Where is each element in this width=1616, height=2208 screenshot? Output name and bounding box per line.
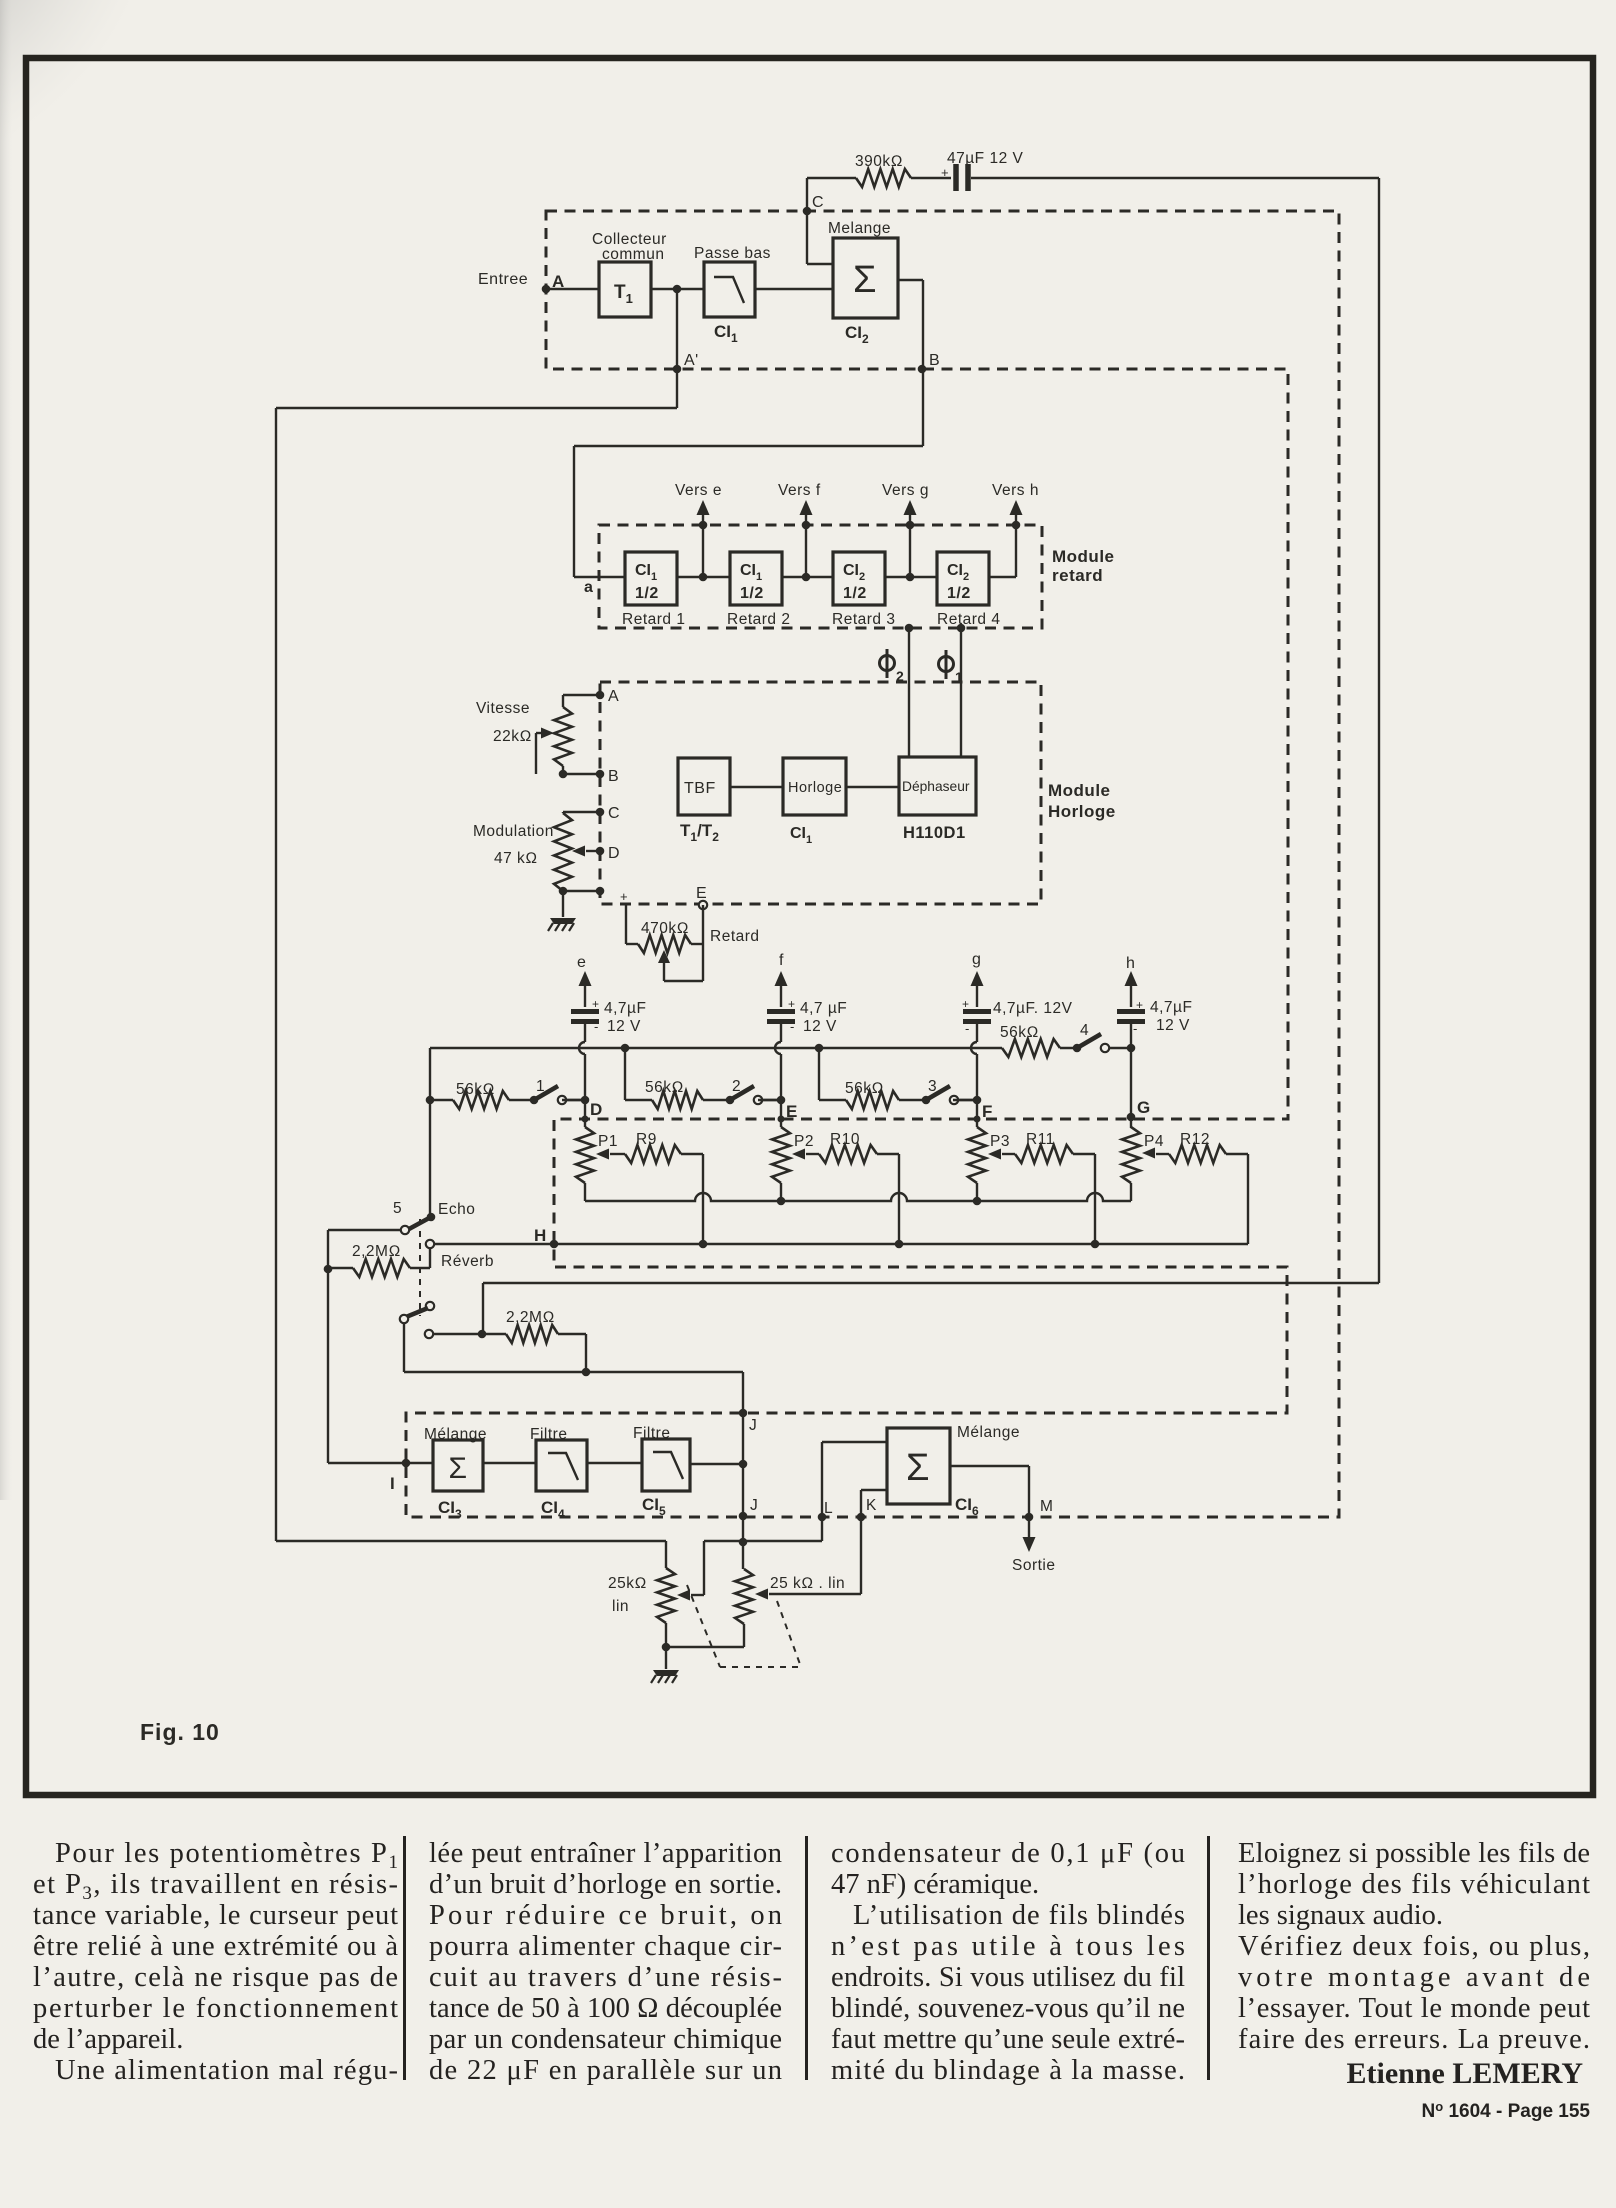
svg-text:390kΩ: 390kΩ: [855, 153, 903, 170]
svg-text:être relié à une extrémité ou: être relié à une extrémité ou à: [33, 1931, 398, 1962]
svg-text:4,7µF. 12V: 4,7µF. 12V: [993, 1000, 1073, 1017]
svg-text:h: h: [1126, 955, 1135, 972]
svg-text:1/2: 1/2: [635, 585, 659, 602]
svg-text:E: E: [786, 1102, 798, 1121]
svg-text:d’un bruit d’horloge en sortie: d’un bruit d’horloge en sortie.: [429, 1869, 782, 1900]
svg-text:-: -: [790, 1019, 795, 1034]
svg-text:tance de 50 à 100 Ω découplée: tance de 50 à 100 Ω découplée: [429, 1993, 782, 2024]
svg-text:condensateur de 0,1 μF (ou: condensateur de 0,1 μF (ou: [831, 1838, 1185, 1869]
svg-text:4: 4: [1080, 1022, 1089, 1039]
svg-text:2,2MΩ: 2,2MΩ: [352, 1243, 401, 1260]
svg-text:Filtre: Filtre: [530, 1426, 567, 1443]
svg-text:56kΩ: 56kΩ: [456, 1081, 495, 1098]
svg-text:Retard 1: Retard 1: [622, 611, 685, 628]
svg-text:E: E: [696, 885, 707, 902]
svg-text:L’utilisation de fils blindés: L’utilisation de fils blindés: [853, 1900, 1185, 1931]
svg-text:Sortie: Sortie: [1012, 1557, 1056, 1574]
svg-text:faut mettre qu’une seule extré: faut mettre qu’une seule extré-: [831, 2024, 1185, 2055]
svg-text:Horloge: Horloge: [1048, 802, 1116, 821]
svg-text:Vitesse: Vitesse: [476, 700, 530, 717]
svg-text:1: 1: [955, 669, 963, 685]
svg-text:Melange: Melange: [828, 220, 891, 237]
svg-text:1/2: 1/2: [740, 585, 764, 602]
svg-text:H110D1: H110D1: [903, 824, 966, 842]
svg-text:lin: lin: [612, 1598, 629, 1615]
svg-text:5: 5: [393, 1200, 402, 1217]
svg-text:n’est pas utile à tous les: n’est pas utile à tous les: [831, 1931, 1185, 1962]
svg-text:blindé, souvenez-vous qu’il ne: blindé, souvenez-vous qu’il ne: [831, 1993, 1185, 2024]
svg-text:tance variable, le curseur peu: tance variable, le curseur peut: [33, 1900, 398, 1931]
svg-text:A: A: [608, 688, 619, 705]
svg-text:A': A': [684, 352, 699, 369]
svg-text:-: -: [965, 1021, 970, 1036]
svg-text:25 kΩ . lin: 25 kΩ . lin: [770, 1575, 845, 1592]
svg-text:+: +: [592, 997, 600, 1011]
svg-text:cuit au travers d’une résis-: cuit au travers d’une résis-: [429, 1962, 782, 1993]
svg-text:I: I: [390, 1474, 395, 1493]
svg-text:commun: commun: [602, 246, 664, 263]
svg-text:Une alimentation mal régu-: Une alimentation mal régu-: [55, 2055, 398, 2086]
svg-text:de l’appareil.: de l’appareil.: [33, 2024, 183, 2055]
svg-text:Echo: Echo: [438, 1201, 475, 1218]
svg-text:Mélange: Mélange: [957, 1424, 1020, 1441]
svg-text:D: D: [590, 1100, 603, 1119]
svg-text:a: a: [584, 579, 593, 596]
svg-text:2: 2: [896, 668, 904, 684]
svg-text:C: C: [812, 194, 824, 211]
svg-text:+: +: [962, 997, 970, 1011]
svg-text:lée peut entraîner l’apparitio: lée peut entraîner l’apparition: [429, 1838, 782, 1869]
svg-text:2,2MΩ: 2,2MΩ: [506, 1309, 555, 1326]
svg-text:R10: R10: [830, 1131, 860, 1148]
svg-text:les signaux audio.: les signaux audio.: [1238, 1900, 1443, 1931]
svg-text:56kΩ: 56kΩ: [1000, 1024, 1039, 1041]
svg-text:Filtre: Filtre: [633, 1425, 670, 1442]
svg-text:47 nF) céramique.: 47 nF) céramique.: [831, 1869, 1039, 1900]
svg-text:G: G: [1137, 1098, 1151, 1117]
svg-text:1/2: 1/2: [843, 585, 867, 602]
svg-text:47µF 12 V: 47µF 12 V: [947, 150, 1023, 167]
svg-text:Entree: Entree: [478, 271, 528, 288]
svg-text:12 V: 12 V: [803, 1018, 837, 1035]
svg-text:Σ: Σ: [448, 1452, 467, 1485]
svg-text:No 1604 - Page 155: No 1604 - Page 155: [1421, 2099, 1590, 2122]
svg-text:Horloge: Horloge: [788, 780, 842, 796]
svg-text:par un condensateur chimique: par un condensateur chimique: [429, 2024, 782, 2055]
svg-text:votre montage avant de: votre montage avant de: [1238, 1962, 1590, 1993]
svg-text:Passe bas: Passe bas: [694, 245, 771, 262]
svg-text:Déphaseur: Déphaseur: [902, 779, 970, 794]
svg-text:de 22 μF en parallèle sur un: de 22 μF en parallèle sur un: [429, 2055, 782, 2086]
svg-text:J: J: [749, 1417, 757, 1434]
svg-text:1: 1: [536, 1078, 545, 1095]
svg-text:Etienne LEMERY: Etienne LEMERY: [1347, 2057, 1584, 2090]
svg-text:l’autre, celà ne risque pas de: l’autre, celà ne risque pas de: [33, 1962, 398, 1993]
svg-text:l’essayer. Tout le monde peut: l’essayer. Tout le monde peut: [1238, 1993, 1590, 2024]
svg-text:Σ: Σ: [906, 1447, 930, 1489]
svg-text:H: H: [534, 1226, 547, 1245]
svg-text:Σ: Σ: [853, 259, 877, 301]
svg-text:Réverb: Réverb: [441, 1253, 494, 1270]
svg-text:+: +: [941, 165, 949, 180]
svg-text:56kΩ: 56kΩ: [845, 1080, 884, 1097]
svg-text:22kΩ: 22kΩ: [493, 728, 532, 745]
svg-text:+: +: [620, 889, 628, 904]
svg-text:mité du blindage à la masse.: mité du blindage à la masse.: [831, 2055, 1185, 2086]
svg-text:R9: R9: [636, 1131, 657, 1148]
svg-text:perturber le fonctionnement: perturber le fonctionnement: [33, 1993, 398, 2024]
svg-text:Vers e: Vers e: [675, 482, 722, 499]
svg-text:Retard: Retard: [710, 928, 760, 945]
svg-text:12 V: 12 V: [607, 1018, 641, 1035]
svg-text:Module: Module: [1048, 781, 1111, 800]
svg-text:M: M: [1040, 1498, 1053, 1515]
svg-text:Vers f: Vers f: [778, 482, 821, 499]
svg-text:F: F: [982, 1102, 993, 1121]
svg-text:2: 2: [732, 1078, 741, 1095]
svg-text:Vérifiez deux fois, ou plus,: Vérifiez deux fois, ou plus,: [1238, 1931, 1590, 1962]
svg-text:Retard 3: Retard 3: [832, 611, 895, 628]
svg-text:Mélange: Mélange: [424, 1426, 487, 1443]
svg-text:3: 3: [928, 1078, 937, 1095]
svg-text:Vers h: Vers h: [992, 482, 1039, 499]
svg-text:R11: R11: [1026, 1131, 1055, 1148]
svg-text:Module: Module: [1052, 547, 1115, 566]
svg-text:+: +: [788, 997, 796, 1011]
svg-text:K: K: [866, 1497, 877, 1514]
svg-text:25kΩ: 25kΩ: [608, 1575, 647, 1592]
svg-text:-: -: [1133, 1021, 1138, 1036]
svg-text:47 kΩ: 47 kΩ: [494, 850, 538, 867]
svg-text:retard: retard: [1052, 566, 1103, 585]
svg-text:pourra alimenter chaque cir-: pourra alimenter chaque cir-: [429, 1931, 782, 1962]
svg-text:12 V: 12 V: [1156, 1017, 1190, 1034]
svg-text:4,7 µF: 4,7 µF: [800, 1000, 847, 1017]
svg-text:D: D: [608, 845, 620, 862]
svg-text:56kΩ: 56kΩ: [645, 1079, 684, 1096]
svg-text:TBF: TBF: [684, 780, 716, 797]
svg-text:endroits. Si vous utilisez du: endroits. Si vous utilisez du fil: [831, 1962, 1185, 1993]
svg-text:Pour les potentiomètres P1: Pour les potentiomètres P1: [55, 1838, 398, 1873]
svg-text:f: f: [779, 952, 784, 969]
svg-text:g: g: [972, 951, 981, 968]
svg-text:e: e: [577, 954, 586, 971]
svg-text:R12: R12: [1180, 1131, 1210, 1148]
svg-text:Vers g: Vers g: [882, 482, 929, 499]
svg-text:P1: P1: [598, 1133, 618, 1150]
svg-text:B: B: [608, 768, 619, 785]
svg-text:+: +: [1136, 998, 1144, 1012]
svg-text:Eloignez si possible les fils: Eloignez si possible les fils de: [1238, 1838, 1590, 1869]
svg-text:4,7µF: 4,7µF: [604, 1000, 646, 1017]
svg-text:Fig. 10: Fig. 10: [140, 1719, 220, 1745]
svg-text:C: C: [608, 805, 620, 822]
svg-text:1/2: 1/2: [947, 585, 971, 602]
svg-text:P2: P2: [794, 1133, 814, 1150]
svg-text:P3: P3: [990, 1133, 1010, 1150]
svg-text:Modulation: Modulation: [473, 823, 554, 840]
svg-text:Retard 2: Retard 2: [727, 611, 790, 628]
svg-text:Retard 4: Retard 4: [937, 611, 1000, 628]
svg-text:L: L: [824, 1500, 833, 1517]
svg-text:470kΩ: 470kΩ: [641, 920, 689, 937]
svg-text:P4: P4: [1144, 1133, 1164, 1150]
svg-text:J: J: [750, 1497, 758, 1514]
svg-text:4,7µF: 4,7µF: [1150, 999, 1192, 1016]
svg-text:B: B: [929, 352, 940, 369]
svg-text:l’horloge des fils véhiculant: l’horloge des fils véhiculant: [1238, 1869, 1590, 1900]
svg-text:-: -: [594, 1019, 599, 1034]
